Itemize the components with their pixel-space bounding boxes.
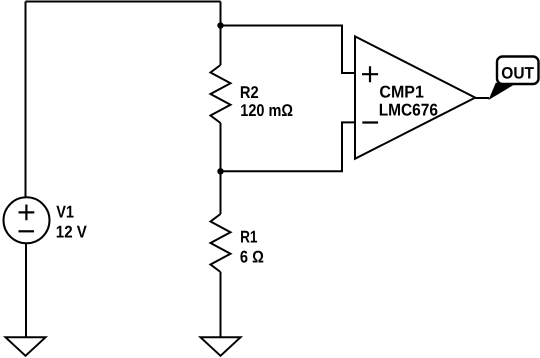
op-amp minus input mark xyxy=(362,121,378,123)
svg-text:6 Ω: 6 Ω xyxy=(240,247,264,266)
OUT flag tail wedge xyxy=(489,83,514,100)
wire node B to R1 xyxy=(220,171,222,214)
V1 minus mark xyxy=(19,230,35,232)
svg-text:R1: R1 xyxy=(240,227,257,246)
wire left rail (V1 top to top rail) xyxy=(25,2,27,198)
node A (top junction dot) xyxy=(217,22,223,28)
wire R1 bottom to ground xyxy=(220,272,222,337)
svg-text:V1: V1 xyxy=(56,202,74,221)
svg-text:12 V: 12 V xyxy=(56,222,88,241)
svg-text:120 mΩ: 120 mΩ xyxy=(240,101,293,120)
wire V1 bottom to ground xyxy=(25,243,27,337)
svg-text:OUT: OUT xyxy=(501,65,534,83)
wire R2 bottom to node B xyxy=(220,123,222,171)
wire op-amp output stub xyxy=(475,97,489,99)
OUT flag box xyxy=(497,57,539,85)
op-amp U1 CMP1 triangle xyxy=(355,36,475,158)
wire top rail xyxy=(26,1,221,3)
wire node A to op-amp + input xyxy=(221,26,355,74)
svg-text:R2: R2 xyxy=(240,83,259,102)
node B (middle junction dot) xyxy=(217,168,223,174)
ground (under V1) xyxy=(6,337,46,356)
ground (under R1) xyxy=(201,337,241,356)
resistor R1 xyxy=(211,214,231,272)
svg-text:CMP1: CMP1 xyxy=(379,83,424,102)
V1 plus mark xyxy=(19,205,35,221)
voltage source V1 xyxy=(4,197,50,243)
op-amp plus input mark xyxy=(362,66,378,82)
wire top vertical into node A xyxy=(220,2,222,66)
svg-text:LMC676: LMC676 xyxy=(379,100,438,119)
wire node B to op-amp - input xyxy=(221,122,355,171)
resistor R2 xyxy=(211,65,231,123)
